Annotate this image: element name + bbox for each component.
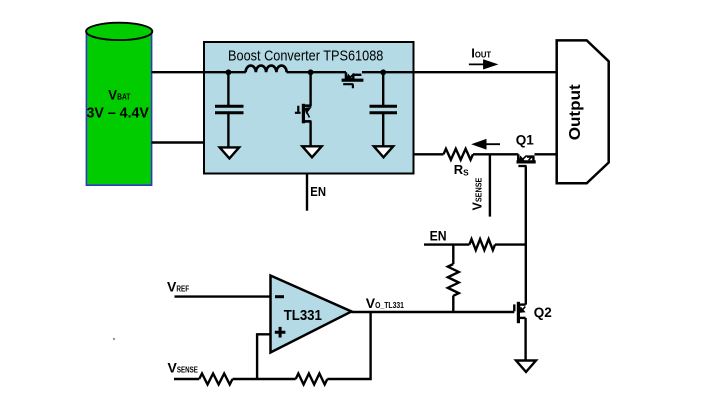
ground symbol Q2 (516, 361, 536, 372)
label plus input (275, 327, 286, 338)
comparator U1 TL331 (271, 276, 352, 353)
capacitor C2 (370, 106, 398, 113)
svg-text:3V – 4.4V: 3V – 4.4V (87, 105, 150, 121)
transistor Q2 (NMOS, vertical) (514, 302, 525, 323)
wire R1 to Q1 gate line (495, 243, 527, 245)
battery VBAT cylinder (86, 23, 152, 186)
capacitor C1 lead lower (227, 113, 229, 148)
resistor R1 (EN series) (469, 239, 495, 250)
svg-text:VO_TL331: VO_TL331 (366, 295, 404, 311)
svg-text:Q2: Q2 (534, 305, 552, 320)
node B junction dot (308, 69, 314, 75)
wire Q1 to output block (535, 153, 558, 155)
wire RS to Q1 (473, 153, 518, 155)
wire Q1 gate vertical to Q2 drain (525, 166, 527, 304)
svg-text:EN: EN (310, 184, 326, 199)
output block (557, 40, 609, 183)
svg-text:VSENSE: VSENSE (168, 360, 199, 376)
wire top rail: inductor to node B to rectifier (287, 71, 346, 73)
resistor R4 (feedback) (296, 374, 328, 385)
wire feedback node up to plus input (257, 334, 271, 379)
transistor M1 (boost switch) (295, 104, 312, 124)
resistor R2 (pull-down vertical) (448, 264, 459, 296)
node C junction dot (380, 69, 386, 75)
wire R3 to feedback node (233, 378, 296, 380)
wire M1 source to ground (309, 121, 311, 146)
capacitor C2 lead upper (382, 72, 384, 105)
wire M1 drain from node B (309, 72, 311, 106)
wire top rail: rectifier to box right edge (362, 71, 414, 73)
arrow current sense direction (left) (474, 140, 500, 148)
label minus input (275, 295, 284, 298)
transistor M2 (boost rectifier, horizontal) (342, 72, 364, 88)
wire lower: box to resistor RS (414, 153, 444, 155)
svg-text:RS: RS (454, 162, 469, 178)
wire VSENSE to resistor R3 (174, 378, 199, 380)
wire VSENSE tap (489, 154, 491, 216)
svg-text:Q1: Q1 (516, 133, 535, 148)
wire top rail: box left edge to node A (204, 71, 246, 73)
wire Q2 source to ground (524, 318, 526, 361)
svg-text:Output: Output (567, 84, 584, 141)
wire EN to resistor R1 (424, 243, 469, 245)
svg-text:TL331: TL331 (284, 307, 322, 324)
resistor RS (444, 149, 474, 160)
capacitor C2 lead lower (382, 113, 384, 147)
ground symbol left (boost input) (220, 147, 239, 158)
wire EN stub below boost box (306, 174, 308, 211)
wire EN node down to resistor R2 (452, 245, 454, 264)
svg-text:VREF: VREF (167, 279, 189, 295)
wire VREF to comparator minus input (175, 295, 272, 297)
wire R2 to comparator output line (452, 296, 454, 313)
svg-text:IOUT: IOUT (471, 45, 491, 60)
boost converter block U2 (204, 42, 414, 174)
inductor L1 (246, 66, 287, 73)
wire battery to boost box (lower) (152, 141, 205, 143)
wire comparator output to Q2 gate (352, 311, 515, 313)
wire top rail: box to output block (414, 71, 558, 73)
arrow IOUT direction (469, 61, 496, 69)
svg-text:Boost Converter TPS61088: Boost Converter TPS61088 (228, 48, 383, 65)
transistor Q1 (pass PMOS, horizontal) (517, 154, 536, 166)
wire R4 to comparator output (327, 312, 370, 379)
svg-text:VSENSE: VSENSE (471, 177, 485, 210)
ground symbol right (boost output) (374, 146, 393, 157)
node A junction dot (226, 69, 232, 75)
wire battery to boost box (upper) (152, 71, 205, 73)
ground symbol mid (boost switch) (302, 146, 321, 157)
svg-text:EN: EN (430, 228, 447, 244)
stray mark (113, 338, 115, 340)
capacitor C1 lead upper (227, 72, 229, 105)
capacitor C1 (215, 106, 244, 113)
resistor R3 (VSENSE series) (199, 374, 232, 385)
